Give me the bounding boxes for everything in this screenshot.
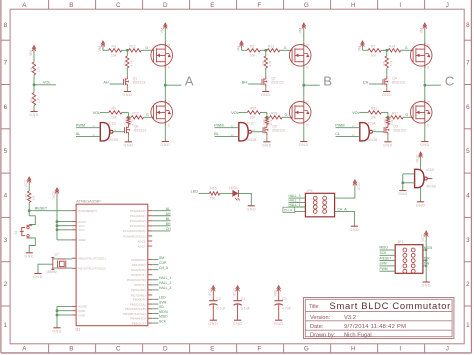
wire	[388, 116, 391, 118]
wire	[423, 260, 426, 262]
resistor R7 10k	[368, 49, 381, 52]
wire	[164, 30, 166, 45]
svg-text:ADC6: ADC6	[138, 239, 146, 243]
svg-text:PB0(ICP): PB0(ICP)	[133, 298, 146, 302]
wire	[295, 210, 305, 212]
wire	[261, 111, 267, 113]
title block row lines	[305, 310, 452, 312]
pin PD2(INT0)	[131, 268, 145, 272]
net label SW	[424, 262, 430, 266]
svg-text:AH: AH	[103, 80, 109, 84]
pin label G	[405, 46, 408, 50]
junction	[127, 116, 130, 119]
svg-text:4.7k: 4.7k	[130, 60, 134, 66]
svg-text:B: B	[69, 2, 73, 9]
svg-text:3: 3	[4, 237, 8, 244]
svg-text:AL: AL	[166, 207, 170, 211]
resistor R18 10k	[28, 191, 31, 203]
wire half-bridge	[303, 67, 305, 103]
wire	[267, 116, 270, 118]
net label AL	[166, 207, 170, 211]
wire	[152, 269, 158, 271]
svg-text:S1: S1	[14, 230, 18, 234]
wire	[237, 304, 239, 320]
svg-text:CH_A: CH_A	[159, 266, 169, 270]
svg-text:SM: SM	[159, 256, 164, 260]
svg-text:VM: VM	[236, 46, 240, 52]
pad JP3 row 2	[313, 201, 317, 205]
junction	[387, 116, 390, 119]
wire half-bridge	[164, 67, 166, 103]
power flag VM (phase B gate supply)	[241, 42, 243, 47]
svg-text:AREF: AREF	[78, 238, 86, 242]
net label HALL_1	[289, 203, 301, 207]
svg-text:H: H	[351, 346, 356, 353]
ground	[125, 141, 132, 143]
pin PC6(/RESET)	[78, 209, 97, 213]
resistor R15	[131, 116, 143, 119]
n-channel power mosfet Q2 (high side)	[289, 45, 311, 67]
n-channel mosfet Q4-driver BSS123	[382, 79, 384, 85]
wire	[28, 203, 30, 216]
svg-text:Date:: Date:	[310, 324, 324, 330]
svg-text:R15: R15	[133, 111, 139, 115]
pin PB5(SCK)	[132, 321, 146, 325]
wire	[152, 264, 158, 266]
svg-text:/RESET: /RESET	[380, 256, 392, 260]
net label SVM	[159, 300, 167, 304]
svg-text:GND: GND	[416, 203, 426, 207]
net label MISO	[380, 246, 389, 250]
phase label A	[185, 73, 194, 88]
svg-text:5: 5	[4, 148, 8, 155]
net label PWM	[380, 267, 388, 271]
junction phase node	[164, 84, 167, 87]
svg-text:R16: R16	[210, 187, 216, 191]
svg-text:4011B: 4011B	[108, 138, 118, 142]
wire	[303, 124, 305, 141]
svg-text:6: 6	[4, 104, 8, 111]
wire	[289, 202, 306, 204]
junction	[401, 181, 404, 184]
net label VOL	[231, 111, 239, 115]
pin PB4(MISO)	[130, 317, 145, 321]
svg-text:GND: GND	[421, 284, 431, 288]
nand gate IC1B 4011B	[415, 169, 424, 187]
wire JP3 vcc	[335, 186, 355, 198]
svg-text:A: A	[185, 73, 194, 88]
svg-text:4011B: 4011B	[426, 185, 436, 189]
wire	[265, 68, 267, 76]
wire gate net	[282, 116, 292, 118]
svg-text:0.1uF: 0.1uF	[241, 306, 251, 310]
pin PC1(ADC1)	[130, 214, 146, 218]
pin AREF	[78, 238, 86, 242]
frame column letters	[22, 2, 27, 9]
wire	[100, 111, 109, 113]
power flag VCC (JP3)	[354, 181, 356, 186]
wire xtal1	[53, 258, 72, 260]
resistor R14	[388, 49, 401, 52]
svg-text:IC1D: IC1D	[108, 121, 116, 125]
svg-text:RESET: RESET	[35, 207, 48, 211]
svg-text:GND: GND	[24, 254, 34, 258]
pin VCC	[78, 224, 85, 228]
pin PD5(T1)	[134, 283, 145, 287]
pin PB0(ICP)	[133, 298, 146, 302]
svg-text:PWM: PWM	[380, 267, 388, 271]
junction phase node	[423, 84, 426, 87]
svg-text:J: J	[446, 346, 449, 353]
svg-text:GND: GND	[233, 322, 243, 326]
svg-text:Q7: Q7	[55, 253, 60, 257]
n-channel power mosfet Q6 (low side)	[151, 102, 173, 124]
svg-text:R14: R14	[389, 44, 395, 48]
wire nand output	[113, 131, 125, 133]
wire	[102, 48, 104, 51]
wire	[278, 292, 280, 301]
net label SVM	[380, 262, 387, 266]
svg-text:MISO: MISO	[380, 246, 389, 250]
svg-text:3: 3	[466, 237, 470, 244]
resistor R6 4.7k	[264, 56, 267, 68]
net label BL	[214, 132, 219, 136]
wire to gnd	[38, 264, 53, 273]
wire gate net	[403, 116, 413, 118]
ground	[262, 91, 269, 93]
svg-text:4: 4	[4, 192, 8, 199]
wire	[238, 111, 247, 113]
svg-text:BSS123: BSS123	[133, 80, 146, 84]
pad JP3 row 1	[313, 196, 317, 200]
net label CH_A	[159, 266, 169, 270]
wire	[380, 265, 396, 267]
pin VCC	[78, 228, 85, 232]
resistor R19 10k	[247, 111, 260, 114]
ground (MCU)	[53, 327, 60, 329]
svg-text:R2: R2	[29, 98, 33, 102]
wire	[152, 322, 158, 324]
svg-text:CH_K: CH_K	[284, 208, 293, 212]
n-channel mosfet Q3-driver BSS123	[383, 127, 385, 133]
n-channel mosfet Q6-driver BSS123	[124, 127, 126, 133]
svg-text:PWM: PWM	[214, 123, 223, 127]
power flag VM for C3	[278, 287, 280, 292]
svg-text:4011B: 4011B	[247, 138, 257, 142]
svg-text:PD0(RXD): PD0(RXD)	[131, 258, 145, 262]
junction VOL	[33, 83, 36, 86]
svg-text:G: G	[405, 46, 408, 50]
wire	[289, 197, 306, 199]
svg-text:LED: LED	[159, 296, 166, 300]
ground	[124, 91, 131, 93]
svg-text:SCK: SCK	[159, 319, 167, 323]
svg-text:5: 5	[466, 148, 470, 155]
wire	[423, 249, 426, 251]
wire gate net	[144, 116, 154, 118]
svg-text:VCC: VCC	[357, 182, 361, 190]
ground	[162, 141, 169, 143]
ground	[300, 141, 307, 143]
frame row ticks	[1, 39, 10, 41]
net label HALL_2	[289, 198, 301, 202]
wire	[238, 193, 251, 205]
svg-text:PC4(ADC4/SDA): PC4(ADC4/SDA)	[123, 229, 146, 233]
resistor R12	[129, 49, 142, 52]
wire	[237, 292, 239, 301]
resistor R17	[391, 116, 403, 119]
ground	[421, 141, 428, 143]
wire phase output	[304, 84, 320, 86]
wire	[335, 211, 355, 226]
svg-text:PB5(SCK): PB5(SCK)	[132, 321, 146, 325]
power flag VCC (MCU)	[56, 189, 58, 194]
svg-text:4.7uF: 4.7uF	[282, 306, 292, 310]
svg-text:VCC: VCC	[78, 228, 85, 232]
svg-text:6: 6	[466, 104, 470, 111]
svg-text:2: 2	[4, 281, 8, 288]
svg-text:G: G	[304, 2, 309, 9]
svg-text:GND: GND	[246, 207, 256, 211]
svg-text:R17: R17	[392, 111, 398, 115]
title block outer	[304, 298, 454, 339]
capacitor C1 0.1uF	[233, 300, 241, 302]
svg-text:7: 7	[4, 60, 8, 67]
svg-text:G: G	[406, 113, 409, 117]
wire	[128, 116, 131, 118]
svg-text:PC1(ADC1): PC1(ADC1)	[130, 214, 146, 218]
net label PWM	[76, 123, 85, 127]
svg-text:C: C	[116, 346, 121, 353]
svg-text:VM: VM	[160, 28, 164, 34]
svg-text:PC3(ADC3): PC3(ADC3)	[130, 224, 146, 228]
svg-text:BSS123: BSS123	[271, 80, 284, 84]
ground	[30, 111, 37, 113]
wire nand output	[372, 131, 384, 133]
wire	[199, 192, 210, 194]
svg-text:PD6(AIN0): PD6(AIN0)	[131, 288, 146, 292]
power flag VCC (IC1B)	[420, 153, 422, 158]
wire	[336, 136, 360, 138]
net label MOSI	[424, 246, 433, 250]
svg-text:GND: GND	[420, 143, 430, 147]
ground	[263, 141, 270, 143]
svg-text:BH: BH	[166, 222, 171, 226]
net label CUP	[159, 261, 167, 265]
wire	[152, 308, 158, 310]
svg-text:D/R: D/R	[424, 256, 430, 260]
svg-text:C: C	[116, 2, 121, 9]
wire	[152, 230, 170, 232]
svg-text:GND: GND	[122, 93, 132, 97]
pin AGND	[78, 305, 88, 309]
wire	[420, 159, 422, 170]
pin PB3(MOSI/OC2)	[123, 312, 145, 316]
svg-text:R11: R11	[371, 106, 377, 110]
svg-text:LED1: LED1	[229, 186, 238, 190]
svg-text:PB7(XTAL2/TOSC2): PB7(XTAL2/TOSC2)	[78, 267, 105, 271]
svg-text:VOL: VOL	[93, 111, 101, 115]
svg-text:IC1A: IC1A	[368, 121, 376, 125]
svg-text:SW: SW	[424, 262, 430, 266]
capacitor C3 4.7uF	[275, 300, 283, 302]
frame outer border (cropped sheet: left, right, bottom only)	[0, 0, 2, 353]
svg-text:PWM: PWM	[335, 123, 344, 127]
wire xtal2	[53, 267, 72, 269]
svg-text:Smart BLDC Commutator: Smart BLDC Commutator	[330, 300, 452, 311]
svg-text:Version:: Version:	[310, 315, 331, 321]
wire phase output	[425, 84, 441, 86]
wire	[386, 50, 388, 56]
wire	[266, 136, 268, 142]
wire nand gnd pin	[420, 188, 422, 202]
svg-text:GND: GND	[383, 143, 393, 147]
svg-text:IC1B: IC1B	[426, 168, 434, 172]
power flag VM (phase A drain)	[164, 24, 166, 29]
svg-text:I: I	[399, 346, 401, 353]
net label VOL	[93, 111, 101, 115]
wire	[303, 30, 305, 45]
svg-text:16MHz: 16MHz	[46, 270, 57, 274]
wire	[164, 124, 166, 141]
svg-text:F: F	[257, 2, 261, 9]
pin PB2(SS/OC1B)	[125, 307, 146, 311]
svg-text:CH_A: CH_A	[337, 207, 347, 211]
wire	[152, 284, 158, 286]
svg-text:R13: R13	[268, 44, 274, 48]
ground	[234, 319, 241, 321]
svg-text:C2: C2	[217, 297, 222, 301]
svg-text:GND: GND	[398, 192, 408, 196]
svg-text:4: 4	[466, 192, 470, 199]
svg-text:HALL_2: HALL_2	[159, 281, 171, 285]
wire	[152, 298, 158, 300]
svg-text:PB1(OC1A): PB1(OC1A)	[130, 302, 146, 306]
net label CH	[166, 227, 171, 231]
net label BL	[166, 217, 170, 221]
ground (S1)	[26, 252, 33, 254]
wire VCC rail	[56, 195, 58, 240]
svg-text:D: D	[163, 2, 168, 9]
svg-text:10k: 10k	[32, 195, 36, 200]
ground (inputs)	[399, 190, 406, 192]
pin GND	[78, 313, 86, 317]
wire half-bridge	[424, 67, 426, 103]
pin PD3(INT1)	[131, 273, 145, 277]
phase label B	[323, 73, 332, 88]
pad JP1 row 3	[403, 259, 407, 263]
svg-text:10k: 10k	[371, 54, 377, 58]
wire	[380, 260, 396, 262]
wire	[76, 136, 100, 138]
svg-text:BSS123: BSS123	[392, 80, 405, 84]
pin label G	[285, 113, 288, 117]
svg-text:HALL_1: HALL_1	[289, 203, 301, 207]
svg-text:1: 1	[466, 322, 470, 329]
wire	[28, 184, 30, 192]
ground	[383, 91, 390, 93]
wire	[212, 292, 214, 301]
svg-text:R9: R9	[112, 106, 116, 110]
svg-text:GND: GND	[261, 93, 271, 97]
pad JP3 row 3	[313, 205, 317, 209]
svg-text:GND: GND	[78, 313, 86, 317]
wire	[152, 225, 170, 227]
svg-text:PD2(INT0): PD2(INT0)	[131, 268, 145, 272]
wire to switch	[29, 216, 35, 225]
svg-text:VM: VM	[98, 46, 102, 52]
wire	[289, 206, 306, 208]
svg-text:1: 1	[4, 322, 8, 329]
pin PD0(RXD)	[131, 258, 145, 262]
led LED1	[232, 190, 238, 197]
wire	[265, 87, 267, 91]
wire gate net	[141, 49, 153, 51]
resistor R5 10k	[247, 49, 260, 52]
pin ADC6	[138, 239, 146, 243]
wire	[265, 50, 267, 56]
svg-text:R1: R1	[29, 67, 33, 71]
resistor R16	[270, 116, 282, 119]
svg-text:H: H	[351, 2, 356, 9]
wire VCC/GND rail	[425, 238, 427, 283]
wire	[382, 111, 388, 113]
power flag VM (phase C drain)	[424, 24, 426, 29]
net label RESET	[35, 207, 48, 211]
svg-text:10k: 10k	[111, 54, 117, 58]
nand gate IC1C 4011B	[239, 123, 248, 141]
svg-text:AL: AL	[76, 132, 81, 136]
net label PWM	[335, 123, 344, 127]
junction	[56, 228, 59, 231]
net label LED	[159, 296, 166, 300]
svg-text:B: B	[69, 346, 73, 353]
net label CL	[335, 132, 340, 136]
wire inputs tied	[403, 173, 415, 175]
junction	[56, 314, 59, 317]
wire RESET to IC	[29, 210, 71, 212]
svg-text:10k: 10k	[250, 116, 256, 120]
svg-text:VCC: VCC	[52, 190, 56, 198]
svg-text:Nich Fugal: Nich Fugal	[344, 332, 372, 338]
wire GND rail	[56, 306, 58, 327]
pin PC4(ADC4/SDA)	[123, 229, 146, 233]
pin PD4(XCK/T0)	[127, 278, 145, 282]
wire	[76, 127, 100, 129]
pin PB1(OC1A)	[130, 302, 146, 306]
ground	[384, 141, 391, 143]
svg-text:VCC: VCC	[421, 233, 425, 241]
svg-text:Drawn by:: Drawn by:	[310, 332, 336, 338]
svg-text:PC0(ADC0): PC0(ADC0)	[130, 209, 146, 213]
svg-text:GND: GND	[382, 93, 392, 97]
svg-text:PC5(ADC5/SCL): PC5(ADC5/SCL)	[123, 234, 146, 238]
resistor R2	[32, 93, 35, 106]
svg-text:HALL_3: HALL_3	[289, 194, 301, 198]
wire	[424, 124, 426, 141]
net label CH	[363, 80, 369, 84]
net label SCK	[159, 319, 167, 323]
wire	[381, 49, 388, 51]
wire VOL	[34, 84, 56, 86]
net label CH_A	[337, 207, 347, 211]
svg-text:10k: 10k	[250, 54, 256, 58]
svg-text:PD5(T1): PD5(T1)	[134, 283, 145, 287]
wire	[423, 265, 426, 267]
svg-text:R21: R21	[383, 119, 387, 125]
svg-text:Title:: Title:	[309, 304, 320, 310]
net label HALL_3	[289, 194, 301, 198]
